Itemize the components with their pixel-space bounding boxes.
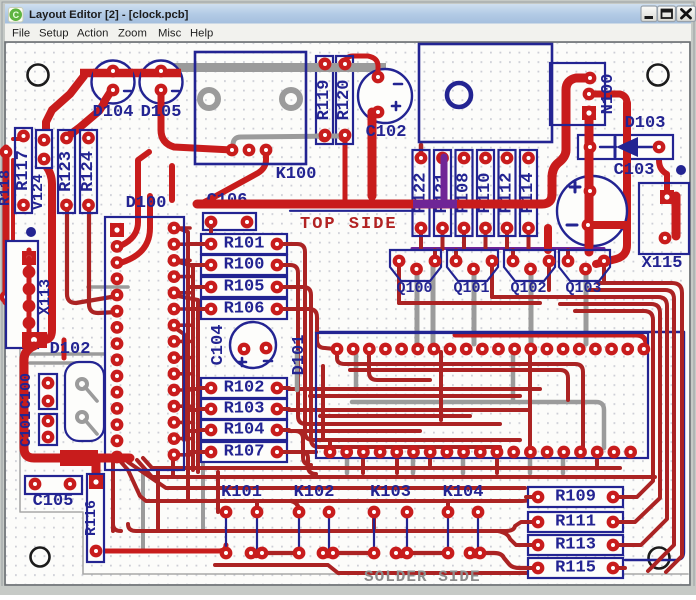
svg-text:R106: R106	[224, 300, 265, 319]
resistor R117	[14, 128, 33, 213]
resistor R122	[412, 150, 431, 236]
wire D101 vertical b	[528, 352, 532, 448]
grey vertical left of D101	[295, 352, 300, 390]
svg-text:Q102: Q102	[510, 280, 546, 297]
wire thick blob	[60, 450, 98, 466]
svg-text:C105: C105	[33, 492, 74, 511]
wire C106 to R101	[209, 228, 213, 240]
wire Q bus horizontals	[399, 297, 540, 303]
svg-text:X115: X115	[642, 254, 683, 273]
wire R104 elbow down	[288, 431, 311, 465]
wire thick feed above D101	[455, 335, 646, 350]
app icon	[9, 8, 24, 23]
wire R104 bus	[288, 429, 420, 433]
wire K100 down to C106 trace	[202, 151, 266, 203]
wire bottom bus 1	[143, 458, 620, 468]
board outline notch (bottom-left step)	[20, 325, 688, 574]
resistor R105	[199, 277, 289, 297]
purple riser R121	[441, 157, 448, 204]
resistor R116	[83, 474, 104, 562]
wire stubs rail to transistors	[435, 250, 568, 260]
svg-text:Misc: Misc	[158, 28, 182, 40]
svg-text:C102: C102	[366, 123, 407, 142]
svg-text:Q103: Q103	[565, 280, 601, 297]
wire R106 right elbow	[288, 309, 334, 349]
purple rail into D101	[316, 331, 684, 333]
wire D101 bus 1	[337, 352, 583, 448]
wire supply overlay	[197, 200, 542, 209]
via blue dot left	[26, 227, 36, 237]
svg-text:SOLDER SIDE: SOLDER SIDE	[364, 568, 481, 586]
resistor R107	[199, 442, 289, 462]
wire R102 bus	[288, 387, 540, 391]
wire C103 stem down	[544, 228, 552, 250]
svg-text:X113: X113	[37, 279, 54, 315]
svg-text:Q100: Q100	[396, 280, 432, 297]
svg-text:Action: Action	[77, 28, 108, 40]
wire D103 vertical	[596, 103, 627, 264]
mounting hole top-left	[28, 65, 49, 86]
wire left edge vertical	[2, 148, 13, 302]
switch K103	[370, 483, 411, 557]
crystal D102	[50, 340, 104, 441]
window title text	[29, 9, 189, 21]
wire D101 bus 5	[328, 440, 332, 448]
wire bundle right side 5	[575, 311, 653, 497]
svg-text:R120: R120	[335, 80, 354, 121]
maximize button	[658, 6, 676, 22]
svg-text:R123: R123	[57, 151, 76, 192]
wire stubs resistor column to rail	[421, 232, 529, 249]
svg-text:V124: V124	[30, 174, 47, 210]
navy parallel trace under supply	[290, 210, 413, 212]
svg-text:K103: K103	[370, 483, 411, 502]
wire R105 right elbow	[288, 287, 319, 447]
connector X115	[639, 183, 689, 273]
resistor R101	[199, 234, 289, 254]
wire D101 bus 8	[320, 445, 500, 449]
transistor Q101	[447, 250, 498, 297]
resistor R104	[199, 420, 289, 440]
purple overlap on supply trace	[413, 200, 457, 209]
wire D101 bus 3	[439, 352, 443, 420]
capacitor D105	[140, 61, 183, 123]
svg-text:Q101: Q101	[453, 280, 489, 297]
svg-text:R124: R124	[79, 151, 98, 192]
wire R107 elbow down	[288, 452, 316, 474]
resistor R111	[526, 512, 625, 532]
wire C103 right riser	[659, 147, 667, 190]
svg-text:R111: R111	[555, 513, 596, 532]
resistor R121	[433, 150, 452, 236]
svg-text:Layout Editor [2] - [clock.pcb: Layout Editor [2] - [clock.pcb]	[29, 9, 189, 21]
svg-text:Setup: Setup	[39, 28, 69, 40]
svg-text:R100: R100	[224, 256, 265, 275]
svg-text:R113: R113	[555, 536, 596, 555]
svg-text:R115: R115	[555, 559, 596, 578]
wire D101 bus 2	[369, 352, 430, 380]
resistor R112	[498, 150, 517, 236]
grey trace left of D100	[30, 287, 128, 363]
mounting hole bottom-right	[649, 548, 670, 569]
svg-text:C104: C104	[209, 325, 228, 366]
wire K101 connections	[251, 501, 262, 556]
wire stubs D100 to resistors	[188, 244, 206, 452]
wire R103 bus	[288, 408, 530, 412]
purple transistor rail	[412, 247, 604, 250]
wire D101 bus 4	[320, 414, 470, 418]
grey bus bar through K100	[174, 63, 386, 72]
capacitor V124	[30, 130, 52, 210]
wire C102 stem	[368, 113, 377, 196]
resistor R119	[315, 56, 334, 144]
svg-text:D103: D103	[625, 114, 666, 133]
svg-text:R104: R104	[224, 421, 265, 440]
resistor R106	[199, 299, 289, 319]
navy right-edge trace	[625, 332, 684, 560]
wire bundle right side 1	[598, 283, 682, 572]
wire K100 corner drop	[169, 166, 175, 200]
svg-text:N100: N100	[599, 74, 618, 115]
R119 R120 pads redraw	[321, 60, 349, 139]
wire K bottom links	[262, 551, 448, 555]
close button	[677, 6, 696, 22]
wire bottom verticals from D100	[113, 455, 218, 531]
resistor R118 label	[0, 170, 14, 206]
switch K102	[294, 483, 338, 557]
minimize button	[641, 6, 657, 22]
wire X115 right edge	[672, 196, 681, 236]
resistor R110	[476, 150, 495, 236]
resistor R115	[526, 558, 625, 578]
pad block C110	[22, 332, 47, 348]
status strip bottom	[0, 586, 696, 595]
capacitor C102	[358, 69, 412, 142]
wire R116 to K101	[96, 545, 226, 551]
label TOP SIDE	[300, 215, 398, 234]
grey verticals bottom band	[143, 462, 203, 551]
svg-text:R109: R109	[555, 488, 596, 507]
svg-text:R116: R116	[83, 500, 100, 536]
menu items	[12, 28, 213, 40]
capacitor C105	[25, 476, 82, 511]
svg-text:R101: R101	[224, 235, 265, 254]
mounting hole top-right	[648, 65, 669, 86]
wire bundle right side 2	[590, 290, 674, 571]
wire R124 bottom to D100	[89, 205, 117, 313]
svg-text:D100: D100	[126, 194, 167, 213]
wire N100 column	[589, 94, 627, 252]
svg-text:K101: K101	[221, 483, 262, 502]
svg-text:C: C	[13, 10, 20, 20]
resistor R123	[57, 130, 76, 213]
svg-text:C103: C103	[614, 161, 655, 180]
capacitor C101	[18, 411, 57, 447]
svg-text:R119: R119	[315, 80, 334, 121]
diode D103	[578, 114, 673, 160]
svg-text:R103: R103	[224, 400, 265, 419]
wire D101 bus 7	[310, 394, 520, 398]
svg-text:Zoom: Zoom	[118, 28, 147, 40]
wire R120 bottom stub	[343, 141, 348, 200]
resistor R124	[79, 130, 98, 213]
capacitor C100	[18, 373, 57, 409]
grey trace inside D101	[352, 352, 604, 448]
wire wiggle to V124	[46, 76, 84, 140]
wire R100 right elbow	[288, 265, 500, 424]
capacitor C106	[203, 191, 256, 230]
capacitor D104	[92, 61, 135, 123]
wire main horizontal supply	[197, 78, 590, 204]
wire X113 pad rail	[27, 258, 32, 340]
menu bar	[5, 24, 691, 43]
wire D104/D105 top bus	[80, 69, 180, 78]
wire red stubs under D101	[363, 456, 597, 473]
svg-text:R107: R107	[224, 443, 265, 462]
mounting hole bottom-left	[31, 548, 50, 567]
resistor R120	[335, 56, 354, 144]
wire K103 connections	[374, 514, 407, 556]
connector X113	[6, 241, 54, 348]
wire risers right of D100	[178, 228, 198, 472]
resistor R109	[526, 487, 625, 507]
via blue dot right	[676, 165, 686, 175]
wire bottom sweep	[215, 565, 617, 573]
transistor Q102	[504, 250, 555, 297]
resistor R100	[199, 255, 289, 275]
svg-text:C101: C101	[18, 411, 35, 447]
wire D105 to K100 pads	[161, 90, 232, 150]
svg-text:C100: C100	[18, 373, 35, 409]
wire D101 vertical a	[321, 366, 325, 440]
label SOLDER SIDE	[364, 568, 481, 586]
capacitor C103	[557, 161, 654, 246]
svg-text:TOP SIDE: TOP SIDE	[300, 215, 398, 234]
connector D101	[290, 333, 648, 458]
resistor R108	[455, 150, 474, 236]
wire bottom bus 3	[121, 462, 538, 501]
wire stub near D102	[62, 340, 67, 358]
relay K100	[195, 52, 316, 184]
IC D100	[105, 194, 184, 470]
wire thick C-shape left	[24, 346, 130, 478]
svg-text:D105: D105	[141, 103, 182, 122]
wire R123 bottom to D100	[67, 205, 117, 303]
svg-text:D104: D104	[93, 103, 134, 122]
grey stubs under transistors	[417, 265, 586, 344]
title bar	[5, 4, 691, 24]
wire K104 to R115	[480, 553, 538, 568]
wire K104 connections	[448, 501, 480, 556]
wire D101 bus 6	[350, 370, 568, 400]
wire R122 top stub	[419, 145, 424, 159]
grey trace X113 riser	[21, 272, 29, 340]
svg-text:K100: K100	[276, 165, 317, 184]
svg-text:R102: R102	[224, 379, 265, 398]
wire R101 right elbow	[288, 244, 520, 440]
svg-text:R105: R105	[224, 278, 265, 297]
wire bundle right side 3	[540, 297, 667, 545]
switch K104	[443, 483, 485, 557]
grey bar overlay R119 R120	[310, 68, 362, 137]
wire V124 down to pad block	[13, 139, 52, 340]
wire fan elbow K531	[113, 524, 121, 531]
resistor R114	[519, 150, 538, 236]
bridge rectifier housing	[419, 44, 552, 142]
resistor R113	[526, 535, 625, 555]
transistor Q100	[390, 250, 441, 297]
transistor Q103	[559, 250, 610, 297]
switch K101	[221, 483, 266, 557]
resistor R103	[199, 399, 289, 419]
capacitor C104	[209, 322, 276, 368]
wire Q pads down	[399, 265, 604, 303]
wire bottom bus 2	[137, 460, 655, 477]
svg-text:D102: D102	[50, 340, 91, 359]
grey trace K100 pad to R119/R120	[233, 136, 345, 150]
wire R120 top to C102	[345, 56, 378, 77]
wire stubs D100 right pads	[178, 228, 190, 455]
wire D104 to R123	[67, 90, 113, 137]
resistor R102	[199, 378, 289, 398]
svg-text:D101: D101	[290, 335, 309, 376]
transformer N100	[550, 63, 618, 125]
wire R107 to D101	[288, 450, 316, 454]
svg-text:K102: K102	[294, 483, 335, 502]
svg-text:R118: R118	[0, 170, 14, 206]
wire C103 minus	[588, 221, 625, 229]
grey stubs under D101	[347, 456, 563, 473]
svg-text:File: File	[12, 28, 30, 40]
svg-text:K104: K104	[443, 483, 484, 502]
wire bottom bus 4	[128, 522, 538, 545]
wire D100 left pads up	[120, 152, 150, 263]
wire K102 connections	[291, 501, 333, 556]
svg-text:Help: Help	[190, 28, 213, 40]
wire bundle right side 4	[560, 304, 660, 522]
